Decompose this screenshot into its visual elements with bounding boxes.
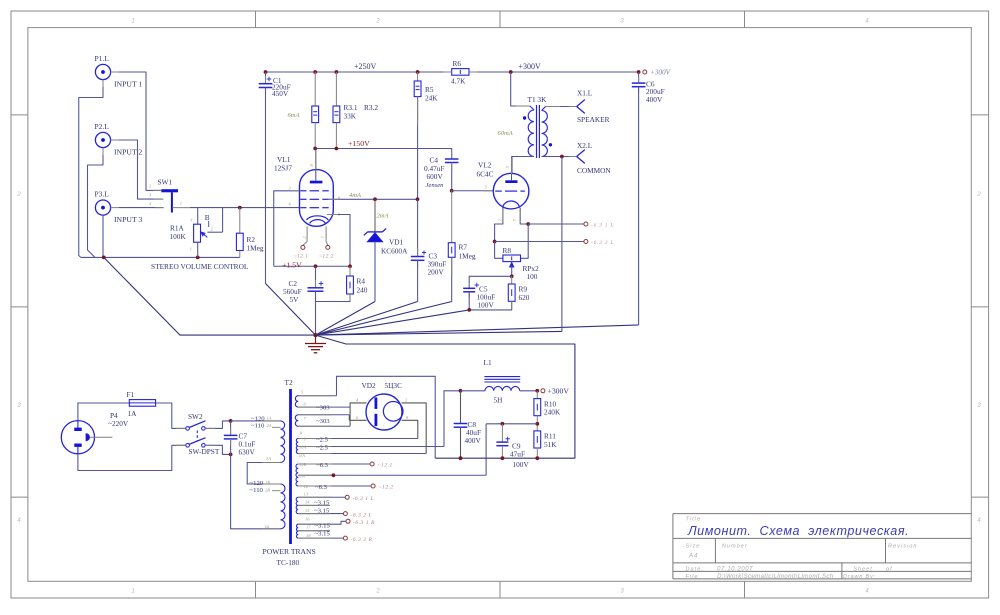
svg-text:47uF: 47uF xyxy=(510,450,525,459)
svg-text:11B: 11B xyxy=(298,474,305,479)
svg-text:~12.2: ~12.2 xyxy=(379,485,394,491)
svg-text:-6.3 1 L: -6.3 1 L xyxy=(353,496,375,502)
svg-text:240: 240 xyxy=(357,285,368,294)
svg-text:1A: 1A xyxy=(267,415,272,420)
svg-text:VL2: VL2 xyxy=(478,161,492,170)
svg-text:VD1: VD1 xyxy=(389,238,404,247)
svg-text:D:\Work\Scematic\Limonit\Limon: D:\Work\Scematic\Limonit\Limonit.Sch xyxy=(717,574,834,580)
svg-text:1Meg: 1Meg xyxy=(459,251,476,260)
svg-text:P1.L: P1.L xyxy=(95,54,110,63)
svg-text:60mA: 60mA xyxy=(498,130,513,137)
svg-text:-6.3 1 L: -6.3 1 L xyxy=(591,223,614,229)
svg-text:~6.3: ~6.3 xyxy=(316,462,329,469)
svg-text:07.10.2007: 07.10.2007 xyxy=(717,566,753,572)
svg-text:+300V: +300V xyxy=(650,69,672,77)
svg-text:of: of xyxy=(886,566,893,572)
svg-text:Number: Number xyxy=(722,544,748,550)
svg-text:12: 12 xyxy=(304,484,309,489)
svg-text:Drawn By:: Drawn By: xyxy=(843,574,876,580)
svg-text:2: 2 xyxy=(375,19,380,25)
svg-text:+250V: +250V xyxy=(354,62,377,71)
svg-text:+300V: +300V xyxy=(548,387,570,396)
svg-text:15: 15 xyxy=(305,508,310,513)
svg-text:P2.L: P2.L xyxy=(95,122,110,131)
svg-text:200V: 200V xyxy=(428,267,445,276)
svg-text:~3.15: ~3.15 xyxy=(314,499,330,506)
svg-text:4mA: 4mA xyxy=(349,192,361,199)
svg-text:VD2: VD2 xyxy=(362,381,377,390)
svg-text:X2.L: X2.L xyxy=(577,141,593,150)
svg-text:2B: 2B xyxy=(265,487,270,492)
svg-text:~2.5: ~2.5 xyxy=(316,436,329,443)
svg-text:2A: 2A xyxy=(267,423,272,428)
svg-text:~110: ~110 xyxy=(250,487,264,494)
svg-text:100V: 100V xyxy=(478,301,495,310)
svg-text:100K: 100K xyxy=(170,232,187,241)
svg-text:4.7K: 4.7K xyxy=(451,76,466,85)
svg-text:Date:: Date: xyxy=(686,566,704,572)
svg-text:1: 1 xyxy=(180,201,182,206)
svg-text:-6.3 2 L: -6.3 2 L xyxy=(591,240,614,246)
svg-text:12SJ7: 12SJ7 xyxy=(274,164,292,173)
svg-text:-6.3 2 R: -6.3 2 R xyxy=(351,537,373,543)
svg-text:240K: 240K xyxy=(544,408,561,417)
svg-text:L1: L1 xyxy=(484,358,492,367)
svg-text:Sheet: Sheet xyxy=(853,566,873,572)
svg-text:POWER TRANS: POWER TRANS xyxy=(263,547,316,556)
svg-text:Revision: Revision xyxy=(888,544,917,550)
svg-text:~12.1: ~12.1 xyxy=(294,254,309,260)
svg-text:~12.1: ~12.1 xyxy=(378,463,393,469)
svg-text:~220V: ~220V xyxy=(108,419,129,428)
svg-text:1: 1 xyxy=(190,246,192,251)
svg-text:~120: ~120 xyxy=(250,480,264,487)
svg-text:-6.3 2 L: -6.3 2 L xyxy=(351,512,373,518)
svg-text:33K: 33K xyxy=(344,111,357,120)
svg-text:STEREO VOLUME CONTROL: STEREO VOLUME CONTROL xyxy=(151,262,249,271)
svg-text:2: 2 xyxy=(976,192,981,198)
svg-text:F1: F1 xyxy=(127,390,135,399)
svg-text:5V: 5V xyxy=(290,295,300,304)
svg-text:P3.L: P3.L xyxy=(95,190,110,199)
svg-text:COMMON: COMMON xyxy=(577,166,611,175)
svg-text:3A: 3A xyxy=(266,456,271,461)
svg-text:2: 2 xyxy=(375,589,380,595)
svg-text:1: 1 xyxy=(131,589,134,595)
svg-text:INPUT 1: INPUT 1 xyxy=(114,80,142,89)
svg-text:1Meg: 1Meg xyxy=(247,243,264,252)
svg-text:14: 14 xyxy=(305,500,310,505)
svg-text:1A: 1A xyxy=(128,409,138,418)
svg-text:400V: 400V xyxy=(465,436,482,445)
svg-text:+150V: +150V xyxy=(348,139,370,148)
svg-text:620: 620 xyxy=(519,293,530,302)
svg-text:~303: ~303 xyxy=(316,418,330,425)
svg-text:INPUT 3: INPUT 3 xyxy=(114,215,142,224)
svg-text:Jensen: Jensen xyxy=(426,182,445,189)
svg-text:24K: 24K xyxy=(425,93,438,102)
svg-text:~303: ~303 xyxy=(316,405,330,412)
svg-text:R7: R7 xyxy=(459,243,468,252)
svg-text:SW-DPST: SW-DPST xyxy=(189,447,220,456)
svg-text:~3.15: ~3.15 xyxy=(315,522,331,529)
svg-text:SPEAKER: SPEAKER xyxy=(577,115,610,124)
svg-text:5Ц3С: 5Ц3С xyxy=(385,381,403,390)
svg-text:~110: ~110 xyxy=(251,423,265,430)
svg-text:100: 100 xyxy=(527,272,538,281)
svg-text:100V: 100V xyxy=(513,460,530,469)
svg-text:2: 2 xyxy=(16,192,21,198)
svg-text:~120: ~120 xyxy=(251,416,265,423)
svg-text:R3.2: R3.2 xyxy=(364,103,378,112)
svg-text:10B: 10B xyxy=(299,462,307,467)
svg-text:Лимонит. Схема электрическая: Лимонит. Схема электрическая. xyxy=(687,524,909,538)
svg-text:+300V: +300V xyxy=(519,62,542,71)
svg-text:13: 13 xyxy=(304,492,309,497)
svg-text:11A: 11A xyxy=(298,453,305,458)
svg-text:2mA: 2mA xyxy=(377,213,389,220)
svg-text:T2: T2 xyxy=(285,378,293,387)
svg-text:File: File xyxy=(686,574,699,580)
svg-text:10A: 10A xyxy=(299,444,307,449)
svg-text:+1.5V: +1.5V xyxy=(282,260,302,269)
svg-text:400V: 400V xyxy=(646,95,663,104)
svg-text:6mA: 6mA xyxy=(288,112,300,119)
svg-text:SW1: SW1 xyxy=(158,177,173,186)
svg-text:3B: 3B xyxy=(264,525,269,530)
svg-text:6C4C: 6C4C xyxy=(477,169,494,178)
svg-text:R6: R6 xyxy=(453,59,462,68)
svg-text:~2.5: ~2.5 xyxy=(316,445,329,452)
svg-text:A4: A4 xyxy=(688,554,698,560)
svg-text:~12.2: ~12.2 xyxy=(319,254,334,260)
svg-text:INPUT 2: INPUT 2 xyxy=(114,148,142,157)
svg-text:1: 1 xyxy=(131,19,134,25)
svg-text:600V: 600V xyxy=(427,172,444,181)
svg-text:16: 16 xyxy=(305,517,310,522)
svg-text:B: B xyxy=(205,213,210,222)
svg-text:SW2: SW2 xyxy=(188,412,203,421)
svg-text:T1 3K: T1 3K xyxy=(528,95,548,104)
svg-text:X1.L: X1.L xyxy=(577,89,593,98)
svg-text:Title: Title xyxy=(686,517,702,523)
svg-text:~3.15: ~3.15 xyxy=(315,531,331,538)
svg-text:Size: Size xyxy=(686,544,701,550)
svg-text:5H: 5H xyxy=(494,396,504,405)
svg-text:-6.3 1 R: -6.3 1 R xyxy=(353,520,375,526)
svg-text:17: 17 xyxy=(306,525,311,530)
svg-text:~3.15: ~3.15 xyxy=(314,508,330,515)
svg-text:TC-180: TC-180 xyxy=(277,558,300,567)
svg-text:R8: R8 xyxy=(503,246,512,255)
svg-text:51K: 51K xyxy=(544,440,557,449)
svg-text:~6.3: ~6.3 xyxy=(315,484,328,491)
svg-text:1B: 1B xyxy=(265,480,270,485)
svg-text:VL1: VL1 xyxy=(277,155,291,164)
svg-text:18: 18 xyxy=(306,533,311,538)
svg-text:630V: 630V xyxy=(239,448,256,457)
svg-text:450V: 450V xyxy=(272,89,289,98)
svg-text:KC600A: KC600A xyxy=(381,247,408,256)
